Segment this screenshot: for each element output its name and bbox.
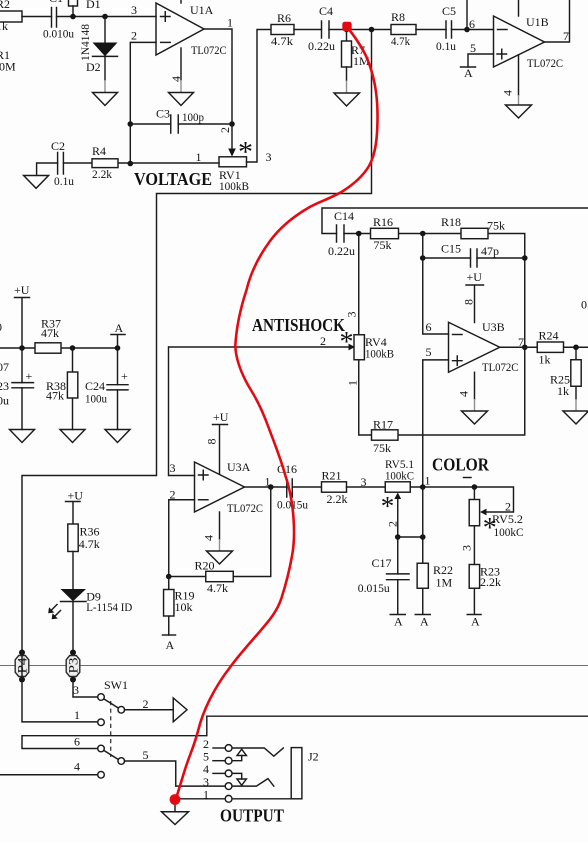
svg-text:+U: +U [14, 283, 30, 297]
svg-text:U1A: U1A [190, 3, 214, 17]
svg-text:*: * [238, 136, 253, 169]
svg-text:+: + [121, 369, 128, 383]
svg-text:R2: R2 [0, 0, 10, 11]
svg-text:5: 5 [470, 41, 476, 55]
svg-text:3: 3 [170, 461, 176, 475]
svg-text:C1: C1 [49, 0, 63, 5]
svg-text:8: 8 [205, 439, 219, 445]
svg-text:VOLTAGE: VOLTAGE [134, 169, 212, 189]
svg-text:1M: 1M [436, 576, 453, 590]
svg-text:47k: 47k [41, 326, 59, 340]
svg-text:10M: 10M [0, 60, 16, 74]
svg-text:COLOR: COLOR [432, 455, 490, 475]
svg-text:1k: 1k [539, 353, 551, 367]
svg-text:A: A [471, 615, 480, 629]
svg-text:2: 2 [320, 334, 326, 348]
svg-text:R16: R16 [373, 215, 393, 229]
svg-text:A: A [166, 638, 175, 652]
svg-text:2.2k: 2.2k [327, 492, 348, 506]
svg-text:100kB: 100kB [219, 179, 249, 193]
svg-text:0u: 0u [0, 394, 9, 408]
svg-text:0: 0 [0, 320, 2, 334]
svg-text:TL072C: TL072C [191, 43, 227, 57]
svg-text:C15: C15 [441, 242, 461, 256]
svg-text:47p: 47p [481, 244, 499, 258]
svg-text:1: 1 [425, 474, 431, 488]
svg-text:4.7k: 4.7k [207, 581, 228, 595]
svg-text:TL072C: TL072C [527, 56, 563, 70]
svg-text:D2: D2 [86, 60, 101, 74]
svg-text:+U: +U [68, 489, 84, 503]
svg-text:R18: R18 [441, 215, 461, 229]
svg-text:TL072C: TL072C [227, 501, 263, 515]
svg-text:3: 3 [460, 545, 474, 551]
svg-text:1N4148: 1N4148 [78, 24, 92, 61]
svg-text:U3A: U3A [227, 460, 251, 474]
svg-text:C14: C14 [334, 209, 354, 223]
svg-text:5: 5 [426, 345, 432, 359]
svg-text:A: A [115, 321, 124, 335]
svg-text:J2: J2 [308, 750, 319, 764]
svg-text:R6: R6 [277, 11, 291, 25]
svg-text:R8: R8 [391, 10, 405, 24]
svg-text:0.015u: 0.015u [358, 581, 390, 595]
svg-text:C4: C4 [319, 4, 333, 18]
svg-text:4.7k: 4.7k [391, 34, 410, 48]
svg-text:0.22u: 0.22u [308, 39, 335, 53]
svg-text:+U: +U [467, 270, 483, 284]
svg-text:100p: 100p [182, 110, 204, 124]
svg-text:A: A [420, 615, 429, 629]
svg-text:100kC: 100kC [385, 469, 414, 483]
svg-text:3: 3 [345, 312, 359, 318]
svg-text:23: 23 [0, 379, 9, 393]
svg-text:0.1u: 0.1u [436, 39, 456, 53]
svg-text:4: 4 [203, 762, 209, 776]
svg-text:1: 1 [203, 788, 209, 802]
svg-text:R21: R21 [322, 469, 342, 483]
svg-text:1: 1 [74, 708, 80, 722]
svg-text:1: 1 [227, 16, 233, 30]
svg-text:R20: R20 [195, 559, 215, 573]
svg-text:R4: R4 [92, 144, 106, 158]
svg-text:ANTISHOCK: ANTISHOCK [252, 315, 345, 335]
svg-text:2.2k: 2.2k [92, 167, 112, 181]
svg-text:75k: 75k [374, 238, 392, 252]
svg-text:1: 1 [346, 380, 360, 386]
svg-text:1: 1 [196, 150, 202, 164]
svg-text:R24: R24 [539, 329, 559, 343]
svg-text:2: 2 [170, 488, 176, 502]
svg-text:0.1u: 0.1u [54, 174, 74, 188]
svg-text:C17: C17 [372, 556, 392, 570]
svg-text:1k: 1k [0, 19, 8, 33]
svg-text:R17: R17 [373, 418, 393, 432]
svg-text:D1: D1 [86, 0, 101, 11]
svg-text:3: 3 [73, 683, 79, 697]
svg-text:10k: 10k [175, 600, 193, 614]
svg-text:TL072C: TL072C [482, 360, 519, 374]
svg-text:07: 07 [0, 360, 9, 374]
svg-text:3: 3 [266, 150, 272, 164]
svg-text:4: 4 [501, 90, 515, 96]
svg-text:0.1: 0.1 [581, 298, 588, 312]
svg-text:C3: C3 [156, 107, 170, 121]
svg-text:6: 6 [426, 320, 432, 334]
svg-text:C2: C2 [51, 139, 65, 153]
svg-text:4.7k: 4.7k [79, 537, 100, 551]
svg-text:+: + [26, 369, 33, 383]
svg-text:+U: +U [213, 410, 229, 424]
svg-text:7: 7 [563, 29, 569, 43]
svg-text:0.22u: 0.22u [328, 244, 355, 258]
svg-text:1k: 1k [557, 384, 569, 398]
svg-text:2: 2 [131, 29, 137, 43]
svg-text:0.010u: 0.010u [43, 27, 74, 41]
svg-text:5: 5 [143, 748, 149, 762]
svg-text:C16: C16 [277, 462, 297, 476]
svg-text:4: 4 [74, 760, 80, 774]
svg-text:75k: 75k [373, 441, 391, 455]
svg-text:A: A [394, 615, 403, 629]
svg-text:3: 3 [131, 3, 137, 17]
svg-text:U3B: U3B [482, 320, 505, 334]
svg-text:100u: 100u [85, 392, 107, 406]
svg-text:100kC: 100kC [494, 525, 524, 539]
svg-text:A: A [464, 66, 473, 80]
svg-text:2: 2 [218, 127, 232, 133]
svg-text:4: 4 [202, 535, 216, 541]
svg-text:P3: P3 [66, 658, 81, 674]
svg-text:2: 2 [143, 697, 149, 711]
svg-text:75k: 75k [487, 219, 505, 233]
svg-text:6: 6 [74, 735, 80, 749]
svg-text:4.7k: 4.7k [271, 34, 293, 48]
svg-text:3: 3 [361, 475, 367, 489]
svg-text:6: 6 [469, 17, 475, 31]
svg-text:L-1154 ID: L-1154 ID [86, 600, 132, 614]
svg-text:2.2k: 2.2k [480, 575, 501, 589]
svg-text:OUTPUT: OUTPUT [220, 806, 284, 826]
svg-text:*: * [340, 327, 354, 358]
svg-text:SW1: SW1 [104, 678, 128, 692]
svg-text:*: * [381, 491, 395, 521]
svg-text:4: 4 [457, 391, 471, 397]
svg-text:C5: C5 [442, 4, 456, 18]
svg-text:4: 4 [169, 76, 183, 82]
svg-text:U1B: U1B [526, 15, 549, 29]
svg-text:100kB: 100kB [365, 347, 394, 361]
svg-text:47k: 47k [46, 389, 64, 403]
svg-text:8: 8 [462, 299, 476, 305]
